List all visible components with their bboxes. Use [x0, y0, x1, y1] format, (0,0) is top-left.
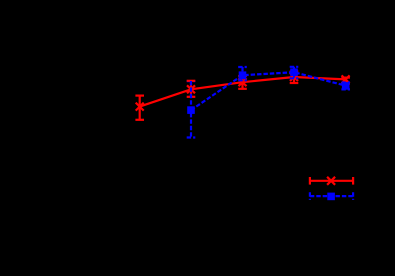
legend blue sample — [310, 192, 353, 200]
red errorbar P1 — [135, 96, 144, 120]
blue series line (dashed) — [191, 72, 346, 110]
blue errorbar B4 — [341, 83, 350, 90]
legend blue marker — [327, 193, 335, 201]
red marker P4 — [290, 73, 298, 81]
red marker P1 — [136, 103, 144, 111]
red marker P3 — [239, 78, 247, 86]
blue marker B3 — [290, 68, 298, 76]
blue marker B4 — [342, 82, 350, 90]
red errorbar P2 — [187, 81, 196, 97]
red errorbar P5 — [341, 78, 350, 84]
blue marker B1 — [187, 106, 195, 114]
legend red sample — [310, 177, 353, 185]
red series line — [140, 77, 346, 107]
blue errorbar B1 top cap (under red) — [187, 80, 196, 82]
blue errorbar B3 — [290, 67, 299, 79]
red errorbar P3 — [238, 76, 247, 89]
blue errorbar B2 — [238, 67, 247, 80]
red errorbar P4 — [290, 72, 299, 84]
red marker P5 — [342, 75, 350, 83]
blue marker B2 — [239, 71, 247, 79]
blue errorbar B1 — [187, 81, 196, 138]
red marker P2 — [187, 85, 195, 93]
